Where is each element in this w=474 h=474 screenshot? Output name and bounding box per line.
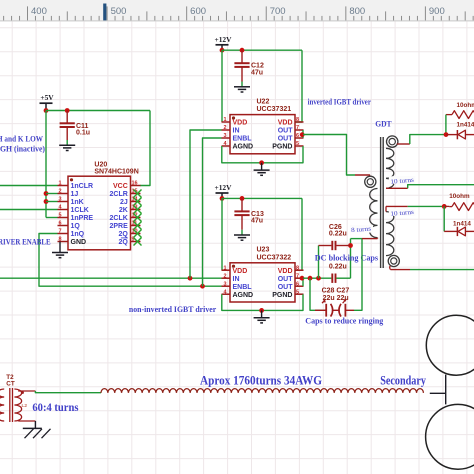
wire +12V down to U22 VDD pin1 [221, 50, 223, 122]
svg-text:2: 2 [223, 273, 226, 279]
svg-text:8: 8 [296, 265, 299, 271]
U20 pin 8 GND [58, 241, 69, 243]
wire +12V rail U23 [222, 197, 302, 199]
svg-text:5: 5 [296, 289, 299, 295]
U23 pin 2 IN [222, 277, 231, 279]
svg-text:5: 5 [58, 213, 61, 219]
svg-text:1CLK: 1CLK [71, 207, 89, 214]
transformer GDT core [380, 137, 382, 268]
svg-text:AGND: AGND [233, 292, 254, 299]
svg-text:VDD: VDD [233, 268, 248, 275]
svg-text:DRIVER ENABLE: DRIVER ENABLE [0, 238, 51, 247]
U20 pin 5 1nPRE [58, 217, 69, 219]
svg-text:SN74HC109N: SN74HC109N [94, 168, 138, 175]
U20 pin 9 2Q overline [121, 237, 128, 239]
T2 bottom lead [18, 420, 35, 422]
svg-text:+12V: +12V [215, 183, 233, 192]
svg-text:6: 6 [296, 133, 299, 139]
svg-text:1: 1 [223, 265, 226, 271]
capacitor C26 0.22u [318, 246, 320, 279]
svg-text:ENBL: ENBL [233, 136, 253, 143]
no-connect X on pin 11 [134, 222, 142, 230]
svg-text:60:4 turns: 60:4 turns [32, 400, 78, 414]
U23 pin 4 AGND [222, 293, 231, 295]
svg-text:1J: 1J [71, 191, 79, 198]
svg-text:400: 400 [31, 6, 47, 17]
U22 pin 3 ENBL [222, 137, 231, 139]
op IC U22 UCC37321 [230, 115, 295, 154]
wire IN column to U22 IN [190, 130, 222, 278]
secondary loop top circle [426, 315, 474, 375]
wire C25 right to riser [336, 277, 350, 279]
svg-text:L2: L2 [22, 403, 28, 409]
svg-text:OUT: OUT [278, 128, 294, 135]
ground below C13 [234, 234, 250, 236]
capacitor C27 22u polarized [339, 304, 341, 317]
junction U22 ground [259, 160, 264, 165]
U20 pin 2 1J [58, 193, 69, 195]
wire U23 OUT pins join [302, 278, 304, 286]
svg-text:CT: CT [6, 381, 15, 388]
svg-text:VDD: VDD [233, 120, 248, 127]
svg-text:C28 C27: C28 C27 [322, 288, 350, 295]
wire enable net to U23 IN [0, 277, 222, 279]
wire sec1 output [408, 185, 474, 189]
svg-text:47u: 47u [251, 218, 263, 225]
GDT primary winding 8 turns [365, 176, 376, 187]
svg-text:VDD: VDD [278, 120, 293, 127]
svg-text:U23: U23 [257, 247, 270, 254]
svg-text:6: 6 [296, 281, 299, 287]
svg-text:3: 3 [223, 133, 226, 139]
svg-text:10ohm: 10ohm [449, 193, 470, 200]
U20 pin 4 1CLK [58, 209, 69, 211]
U22 pin 8 VDD [295, 121, 304, 123]
op IC U23 UCC37322 [230, 263, 295, 302]
wire to diode network 1 [410, 135, 446, 144]
svg-text:1n414: 1n414 [453, 220, 471, 227]
no-connect X on pin 15 [134, 190, 142, 198]
wire +5V down to U20 left pins [45, 111, 47, 218]
wire U22 OUT pins join [302, 130, 304, 138]
svg-text:PGND: PGND [272, 292, 292, 299]
wire T2 to earth [34, 421, 36, 428]
svg-text:800: 800 [349, 6, 365, 17]
wire U23 PGND to ground [262, 294, 303, 310]
svg-text:IN: IN [233, 276, 240, 283]
U20 pin 7 1nQ [58, 233, 69, 235]
svg-text:2J: 2J [120, 199, 128, 206]
svg-text:1nCLR: 1nCLR [71, 183, 94, 190]
svg-text:0.1u: 0.1u [76, 130, 90, 137]
U20 pin 15 2CLR [131, 193, 141, 195]
svg-text:OUT: OUT [278, 136, 294, 143]
no-connect X on pin 12 [134, 214, 142, 222]
ruler bar [0, 0, 474, 21]
U22 pin 2 IN [222, 129, 231, 131]
svg-text:OUT: OUT [278, 284, 294, 291]
U20 pin 3 1nK [58, 201, 69, 203]
wire U23 AGND to ground [222, 294, 262, 310]
wire sec2 bottom output [410, 269, 474, 271]
capacitor C11 0.1u [66, 111, 68, 124]
svg-text:1nPRE: 1nPRE [71, 215, 94, 222]
svg-text:1n4148: 1n4148 [457, 122, 474, 129]
wire ringing caps row left [310, 278, 326, 310]
junction U22 OUT [300, 132, 305, 137]
U20 pin 1 1nCLR [58, 185, 69, 187]
svg-text:2PRE: 2PRE [110, 223, 129, 230]
inductor primary coil 1760 turns [101, 389, 423, 393]
wire +5V rail right [46, 110, 150, 112]
wire ENBL column to U22 ENBL [203, 138, 222, 286]
U22 pin 7 OUT [295, 129, 304, 131]
U23 pin 8 VDD [295, 269, 304, 271]
GDT sec2 top lead [386, 205, 408, 207]
svg-text:inverted IGBT driver: inverted IGBT driver [308, 97, 371, 107]
U23 pin 5 PGND [295, 293, 304, 295]
svg-text:AGND: AGND [233, 144, 254, 151]
svg-text:16: 16 [132, 181, 138, 187]
svg-text:VDD: VDD [278, 268, 293, 275]
junction U23 OUT a [300, 276, 305, 281]
ground below C11 [59, 144, 75, 146]
svg-text:Secondary: Secondary [380, 373, 426, 387]
wire resistor1 to junction [445, 115, 447, 135]
svg-text:7: 7 [296, 125, 299, 131]
U23 pin 7 OUT [295, 277, 304, 279]
svg-text:2Q: 2Q [118, 231, 128, 238]
GDT primary bottom lead [362, 238, 378, 240]
GDT secondary top winding 10 turns [387, 136, 398, 147]
junction C28 drop [308, 276, 313, 281]
GDT sec1 bottom lead [386, 187, 408, 189]
capacitor C12 47u [241, 50, 243, 63]
svg-text:10ohm: 10ohm [457, 102, 474, 109]
junction C26 right [348, 243, 353, 248]
svg-text:H and K LOW: H and K LOW [0, 134, 44, 143]
svg-text:0.22u: 0.22u [329, 263, 347, 270]
svg-text:7: 7 [296, 273, 299, 279]
U20 pin 11 2PRE [131, 225, 141, 227]
U22 pin 1 VDD [222, 121, 231, 123]
wire C27 right [345, 309, 354, 311]
svg-text:47u: 47u [251, 70, 263, 77]
capacitor C13 47u [241, 198, 243, 211]
wire +12V to U23 VDD pin8 [295, 198, 302, 270]
capacitor C28 22u polarized [325, 304, 327, 317]
U20 pin 10 2Q [131, 233, 141, 235]
wire U20 1nQ to U23 ENBL [39, 234, 222, 287]
wire +12V to U22 VDD pin8 [295, 50, 302, 122]
no-connect X on pin 10 [134, 230, 142, 238]
svg-text:8: 8 [296, 117, 299, 123]
wire U20 GND pin to ground [59, 242, 61, 253]
ground below U22 [254, 169, 270, 171]
junction +12V U22 [220, 48, 225, 53]
svg-text:DC blocking Caps: DC blocking Caps [315, 252, 379, 262]
svg-text:900: 900 [429, 6, 445, 17]
svg-text:OUT: OUT [278, 276, 294, 283]
svg-text:non-inverted IGBT driver: non-inverted IGBT driver [129, 304, 216, 314]
ground below U20 [52, 252, 68, 254]
wire C13 to ground [241, 230, 243, 235]
wire C11 to ground [66, 140, 68, 145]
junction U23 ground [259, 308, 264, 313]
svg-text:2Q: 2Q [118, 239, 128, 246]
svg-text:2K: 2K [119, 207, 128, 214]
ground below U23 [254, 317, 270, 319]
wire +5V to U20 VCC pin16 [140, 111, 150, 186]
T2 top lead [18, 390, 35, 392]
svg-text:1: 1 [58, 181, 61, 187]
junction ENBL column [200, 284, 205, 289]
svg-text:1nQ: 1nQ [71, 231, 85, 238]
wire coil to secondary stem [430, 392, 446, 394]
svg-text:U22: U22 [257, 98, 270, 105]
wire +12V down to U23 VDD pin1 [221, 198, 223, 270]
text 10 turns upper [389, 176, 416, 184]
junction C13 tap [240, 196, 245, 201]
svg-text:500: 500 [111, 6, 127, 17]
ruler cursor marker [103, 4, 106, 21]
no-connect X on pin 9 [134, 238, 142, 246]
IC U20 SN74HC109N [68, 176, 131, 250]
svg-text:+5V: +5V [40, 93, 54, 102]
svg-text:PGND: PGND [272, 144, 292, 151]
junction C11 tap [65, 108, 70, 113]
capacitor C25 0.22u series plates [331, 274, 333, 283]
text 10 turns lower [389, 208, 416, 216]
wire riser to GDT primary bottom [350, 239, 352, 279]
wire C12 to ground [241, 82, 243, 87]
earth ground symbol [23, 427, 42, 429]
svg-text:GDT: GDT [375, 119, 392, 129]
U20 pin 9 2Q [131, 241, 141, 243]
secondary loop bottom circle [426, 404, 474, 469]
GDT sec2 bottom lead [391, 269, 411, 271]
svg-text:600: 600 [190, 6, 206, 17]
svg-text:2CLR: 2CLR [110, 191, 128, 198]
svg-text:1nK: 1nK [71, 199, 84, 206]
wire U22 AGND to ground [222, 146, 262, 163]
svg-text:GND: GND [71, 239, 87, 246]
junction at 1nK [44, 199, 49, 204]
no-connect X on pin 13 [134, 206, 142, 214]
svg-text:ENBL: ENBL [233, 284, 253, 291]
wire GDT primary bottom link [351, 238, 363, 240]
U23 pin 3 ENBL [222, 285, 231, 287]
U20 pin 13 2K [131, 209, 141, 211]
junction +5V [44, 108, 49, 113]
wire lead into GDT top terminal [355, 175, 370, 177]
U22 pin 4 AGND [222, 145, 231, 147]
GDT secondary top circle lead [397, 143, 410, 145]
svg-text:UCC37322: UCC37322 [257, 254, 292, 261]
svg-text:3: 3 [223, 281, 226, 287]
wire U22 OUT to GDT primary top [303, 135, 355, 176]
svg-text:IN: IN [233, 128, 240, 135]
junction +12V U23 [220, 196, 225, 201]
wire to pin 1J [46, 193, 58, 195]
GDT secondary bottom winding 10 turns [386, 212, 394, 256]
junction RD2 [442, 204, 447, 209]
junction C26 rise [316, 276, 321, 281]
wire to pin 1nK [46, 201, 58, 203]
wire input to U20 pin 1CLK [0, 209, 58, 211]
text 8 turns [350, 225, 374, 232]
svg-text:1Q: 1Q [71, 223, 81, 230]
wire down to ringing caps [354, 239, 362, 311]
wire U23 OUT row [303, 277, 331, 279]
U20 pin 12 2CLK [131, 217, 141, 219]
junction at 1J [44, 191, 49, 196]
svg-text:IGH (inactive): IGH (inactive) [0, 145, 45, 154]
transformer T2 left winding [0, 389, 4, 421]
wire U22 PGND to ground [262, 146, 303, 163]
U20 pin 14 2J [131, 201, 141, 203]
svg-text:5: 5 [296, 141, 299, 147]
secondary stem [445, 375, 447, 405]
U22 pin 5 PGND [295, 145, 304, 147]
wire sec2 to resistor network 2 [408, 205, 445, 207]
svg-text:2: 2 [223, 125, 226, 131]
svg-text:6: 6 [58, 221, 61, 227]
svg-text:Aprox 1760turns 34AWG: Aprox 1760turns 34AWG [200, 373, 322, 387]
wire +12V rail U22 [222, 49, 302, 51]
svg-text:UCC37321: UCC37321 [257, 106, 292, 113]
transformer T2 core [9, 388, 11, 422]
wire to diode D2 [443, 206, 445, 231]
svg-text:0.22u: 0.22u [329, 231, 347, 238]
svg-text:VCC: VCC [113, 183, 128, 190]
ground below C12 [234, 86, 250, 88]
svg-text:700: 700 [270, 6, 286, 17]
junction RD1 [444, 132, 449, 137]
U20 pin 16 VCC [131, 185, 141, 187]
svg-text:2: 2 [58, 189, 61, 195]
svg-text:3: 3 [58, 197, 61, 203]
wire to pin 1nPRE [46, 217, 58, 219]
svg-text:+12V: +12V [215, 35, 233, 44]
U23 pin 1 VDD [222, 269, 231, 271]
T2 phase dot [21, 391, 24, 394]
transformer T2 right winding [14, 389, 21, 421]
svg-text:Caps to reduce ringing: Caps to reduce ringing [305, 316, 384, 326]
svg-text:7: 7 [58, 229, 61, 235]
svg-text:1: 1 [223, 117, 226, 123]
wire T2 to primary coil [35, 391, 101, 393]
no-connect X on pin 14 [134, 198, 142, 206]
U23 pin 6 OUT [295, 285, 304, 287]
U22 pin 6 OUT [295, 137, 304, 139]
wire between C28 C27 [332, 309, 340, 311]
junction C12 tap [240, 48, 245, 53]
svg-text:22u 22u: 22u 22u [323, 295, 349, 302]
junction IN column [188, 276, 193, 281]
wire input to U20 pin 1nCLR [0, 185, 58, 187]
svg-text:2CLK: 2CLK [110, 215, 128, 222]
U20 pin 6 1Q [58, 225, 69, 227]
